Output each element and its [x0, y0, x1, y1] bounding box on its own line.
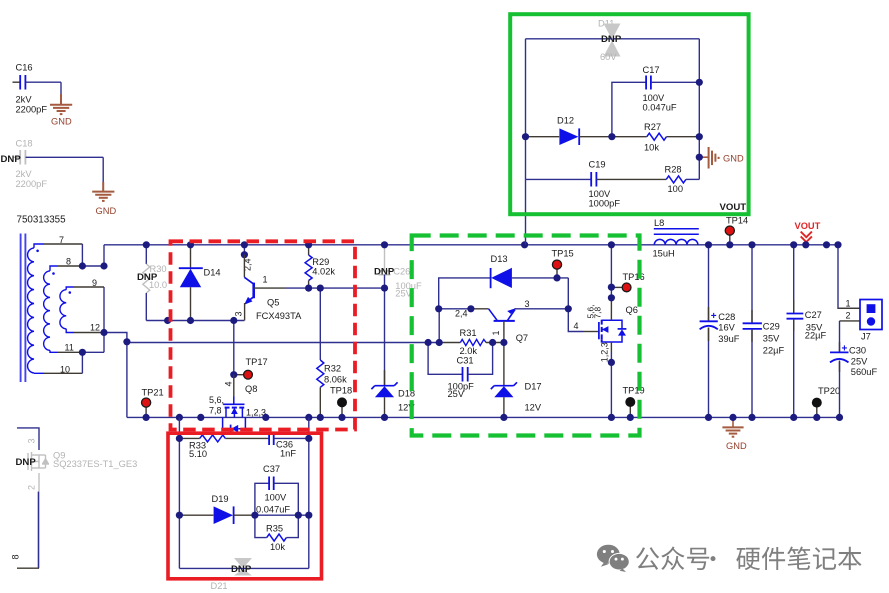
- svg-text:C29: C29: [763, 321, 780, 331]
- wire C16 to ground: [60, 82, 62, 104]
- svg-text:TP18: TP18: [330, 386, 352, 396]
- wire bottom rail: [127, 416, 840, 418]
- svg-text:2kV: 2kV: [16, 95, 33, 105]
- red box right vertical: [308, 438, 310, 568]
- body diode loop: [223, 417, 231, 428]
- svg-text:C17: C17: [643, 65, 660, 75]
- capacitor C27: [787, 245, 827, 418]
- ground GND3 rotated: [699, 147, 744, 169]
- watermark wechat icon: [597, 545, 630, 572]
- svg-text:J7: J7: [861, 331, 871, 341]
- cap lead dark segments: [709, 300, 840, 372]
- test point TP16: [611, 272, 644, 292]
- svg-text:VOUT: VOUT: [720, 202, 747, 213]
- capacitor C19: [526, 159, 667, 208]
- wire snubber riser: [525, 179, 527, 244]
- junction dots snubber: [522, 79, 703, 161]
- zener diode D18: [371, 370, 415, 417]
- svg-text:GND: GND: [726, 441, 747, 451]
- capacitor C18 (DNP): [1, 139, 104, 190]
- svg-text:12V: 12V: [525, 402, 542, 412]
- svg-text:100V: 100V: [643, 93, 666, 103]
- capacitor C17: [612, 65, 699, 137]
- svg-text:10.0: 10.0: [149, 280, 167, 290]
- svg-text:1: 1: [491, 330, 501, 335]
- svg-text:TP15: TP15: [552, 248, 574, 258]
- winding 9-12: [60, 290, 71, 329]
- svg-text:D19: D19: [212, 494, 229, 504]
- svg-text:16V: 16V: [718, 322, 735, 332]
- diode D12: [526, 115, 612, 145]
- svg-text:VOUT: VOUT: [795, 221, 821, 231]
- svg-text:Q7: Q7: [516, 333, 528, 343]
- red solid box left riser wires: [178, 417, 180, 438]
- svg-text:7,8: 7,8: [593, 307, 603, 319]
- resistor R28: [665, 165, 700, 195]
- svg-text:Q8: Q8: [245, 384, 257, 394]
- svg-text:1,2,3: 1,2,3: [599, 342, 609, 362]
- svg-text:100: 100: [668, 184, 684, 194]
- svg-text:4: 4: [223, 381, 233, 386]
- svg-text:GND: GND: [51, 117, 72, 127]
- wire snubber left vertical: [525, 39, 527, 180]
- resistor R35: [255, 515, 298, 552]
- svg-text:100V: 100V: [265, 492, 288, 502]
- svg-text:2: 2: [27, 485, 37, 490]
- svg-text:C37: C37: [263, 464, 280, 474]
- svg-text:R35: R35: [266, 523, 283, 533]
- wire top rail: [104, 244, 838, 246]
- svg-text:22µF: 22µF: [805, 330, 827, 340]
- svg-text:15uH: 15uH: [653, 249, 675, 259]
- svg-text:25V: 25V: [448, 389, 465, 399]
- resistor R32: [317, 360, 347, 417]
- svg-text:D13: D13: [491, 254, 508, 264]
- diode D19: [179, 494, 255, 524]
- svg-text:TP21: TP21: [142, 388, 164, 398]
- svg-text:8: 8: [66, 257, 71, 267]
- svg-text:8: 8: [11, 554, 21, 559]
- svg-text:2: 2: [846, 310, 851, 320]
- svg-text:FCX493TA: FCX493TA: [256, 311, 302, 321]
- test point TP21: [142, 388, 164, 418]
- capacitor C31: [428, 343, 493, 399]
- diode D13: [491, 254, 569, 288]
- transistor Q8: [209, 375, 266, 433]
- svg-text:100V: 100V: [589, 189, 612, 199]
- wire feedback row y342: [127, 342, 439, 344]
- transistor Q5: [234, 245, 303, 321]
- resistor R29: [305, 245, 335, 288]
- junction dots left section: [143, 241, 389, 421]
- svg-text:12: 12: [90, 323, 100, 333]
- svg-text:D12: D12: [557, 115, 574, 125]
- test point TP17: [230, 357, 268, 379]
- transistor Q9 (DNP): [11, 428, 138, 568]
- svg-text:1000pF: 1000pF: [589, 198, 621, 208]
- svg-text:2kV: 2kV: [16, 169, 33, 179]
- wire top rail riser: [103, 245, 105, 266]
- wire Q7 collector row to gate: [515, 308, 569, 310]
- highlight green dashed box: [412, 236, 640, 436]
- junction dots green area: [425, 241, 634, 421]
- svg-text:GND: GND: [723, 153, 744, 163]
- winding 7-10: [28, 248, 39, 373]
- highlight red solid box: [168, 433, 322, 579]
- svg-text:2200pF: 2200pF: [16, 179, 48, 189]
- svg-text:R28: R28: [665, 165, 682, 175]
- resistor R33: [179, 435, 269, 459]
- resistor R31: [439, 328, 504, 356]
- wire C18 to ground: [102, 157, 104, 191]
- body diode Q6: [618, 328, 627, 330]
- ground GND2: [92, 182, 116, 216]
- svg-text:7,8: 7,8: [209, 406, 222, 416]
- svg-text:DNP: DNP: [231, 564, 252, 575]
- diode D11 (DNP): [598, 18, 622, 62]
- svg-text:D14: D14: [204, 267, 221, 277]
- pin 10: [34, 352, 82, 374]
- wire R32 branch vertical: [319, 288, 321, 360]
- svg-text:TP17: TP17: [246, 357, 268, 367]
- svg-text:C27: C27: [805, 310, 822, 320]
- core: [20, 234, 22, 383]
- svg-text:5.10: 5.10: [189, 449, 207, 459]
- wire D19 row to right vertical: [255, 514, 309, 516]
- svg-text:C26: C26: [393, 266, 410, 276]
- highlight green solid box: [510, 14, 748, 214]
- test point TP18: [330, 386, 352, 418]
- test point TP19: [623, 385, 645, 417]
- capacitor C16: [13, 63, 62, 115]
- wire Q5 base row y288: [285, 287, 385, 289]
- svg-text:1nF: 1nF: [280, 448, 296, 458]
- pin 11: [50, 343, 104, 353]
- svg-text:Q6: Q6: [626, 305, 638, 315]
- wire vertical 439: [438, 309, 440, 343]
- svg-text:C16: C16: [16, 63, 33, 73]
- watermark text: [636, 547, 862, 571]
- svg-text:2,4: 2,4: [455, 309, 468, 319]
- svg-text:+: +: [711, 311, 717, 322]
- inductor L8: [653, 218, 699, 259]
- wire Q6 source vertical: [610, 342, 612, 352]
- svg-text:560uF: 560uF: [851, 367, 878, 377]
- resistor R27: [612, 122, 699, 152]
- svg-text:3: 3: [525, 299, 530, 309]
- transistor Q6: [574, 305, 638, 363]
- capacitor C26 (DNP): [374, 245, 422, 298]
- capacitor C30: [830, 321, 877, 418]
- wire snubber right vertical: [698, 39, 700, 180]
- svg-text:R31: R31: [460, 328, 477, 338]
- svg-text:3: 3: [27, 438, 37, 443]
- svg-text:35V: 35V: [763, 333, 780, 343]
- capacitor C29: [743, 245, 785, 418]
- capacitor C36: [269, 432, 309, 459]
- ground GND1: [50, 94, 72, 127]
- diode D14: [179, 245, 221, 321]
- svg-text:DNP: DNP: [601, 34, 622, 45]
- svg-text:8.06k: 8.06k: [324, 374, 347, 384]
- junction transformer dots: [79, 262, 131, 356]
- svg-text:4: 4: [574, 321, 579, 331]
- svg-text:11: 11: [65, 343, 74, 353]
- red box left vertical: [178, 438, 180, 568]
- wire pin9 to pin11 vertical: [103, 287, 105, 352]
- pin 9: [66, 278, 104, 290]
- svg-text:25V: 25V: [851, 356, 868, 366]
- capacitor C28: [700, 245, 740, 418]
- resistor R30 (DNP): [137, 245, 167, 321]
- svg-text:1: 1: [846, 298, 851, 308]
- winding 8-11: [44, 271, 55, 351]
- wire D14/Q5 lower row y320.5: [146, 320, 244, 322]
- svg-text:2.0k: 2.0k: [460, 346, 478, 356]
- svg-text:DNP: DNP: [16, 457, 37, 468]
- wire secondary return to row: [104, 333, 127, 418]
- wire emitter row y309: [439, 308, 471, 310]
- svg-text:C19: C19: [589, 159, 606, 169]
- svg-text:GND: GND: [96, 206, 117, 216]
- svg-text:2200pF: 2200pF: [16, 105, 48, 115]
- transistor Q7: [455, 299, 530, 343]
- red box bottom wire: [179, 567, 308, 569]
- svg-text:1: 1: [263, 274, 268, 284]
- svg-text:R27: R27: [644, 122, 661, 132]
- junction dots output: [705, 241, 843, 421]
- wire Q6 drain vertical: [610, 245, 612, 298]
- svg-text:DNP: DNP: [1, 154, 22, 165]
- pin 8: [50, 257, 104, 271]
- svg-text:SQ2337ES-T1_GE3: SQ2337ES-T1_GE3: [53, 459, 137, 469]
- test point TP14: [725, 216, 748, 245]
- svg-text:5,6,: 5,6,: [209, 395, 224, 405]
- svg-text:L8: L8: [654, 218, 664, 228]
- wire Q8 gate vertical: [233, 321, 235, 375]
- svg-text:4.02k: 4.02k: [312, 266, 335, 276]
- highlight red dashed box: [171, 241, 356, 429]
- capacitor C37: [255, 464, 298, 515]
- svg-text:Q5: Q5: [267, 298, 279, 308]
- svg-text:TP14: TP14: [726, 216, 748, 226]
- pin 7: [34, 235, 82, 266]
- test point TP15: [552, 248, 574, 281]
- wire snubber top: [526, 38, 700, 40]
- svg-text:3: 3: [234, 311, 244, 316]
- svg-text:C28: C28: [718, 312, 735, 322]
- wire D13 row left corner: [439, 278, 491, 309]
- connector J7: [838, 245, 882, 341]
- svg-text:C18: C18: [16, 139, 33, 149]
- svg-text:750313355: 750313355: [17, 214, 67, 225]
- svg-text:DNP: DNP: [374, 266, 395, 277]
- svg-text:C31: C31: [457, 355, 474, 365]
- svg-text:TP20: TP20: [818, 386, 840, 396]
- svg-text:60V: 60V: [600, 52, 617, 62]
- ground GND4: [722, 417, 747, 451]
- diode D21 (DNP): [211, 558, 253, 591]
- test point TP20: [812, 386, 840, 417]
- svg-text:D21: D21: [211, 581, 228, 591]
- svg-text:R32: R32: [324, 363, 341, 373]
- junction dots red box: [176, 435, 313, 519]
- transformer T1 750313355: [17, 214, 67, 382]
- svg-text:39uF: 39uF: [718, 334, 740, 344]
- svg-text:C30: C30: [849, 345, 866, 355]
- svg-text:10k: 10k: [644, 142, 659, 152]
- wire zener branch vertical: [384, 288, 386, 385]
- svg-text:0.047uF: 0.047uF: [643, 102, 677, 112]
- net flag VOUT red: [795, 221, 821, 242]
- svg-text:D17: D17: [525, 381, 542, 391]
- pin 12: [66, 323, 104, 333]
- svg-text:0.047uF: 0.047uF: [256, 505, 290, 515]
- zener diode D17: [491, 343, 542, 418]
- svg-text:22µF: 22µF: [763, 345, 785, 355]
- svg-text:10k: 10k: [270, 542, 285, 552]
